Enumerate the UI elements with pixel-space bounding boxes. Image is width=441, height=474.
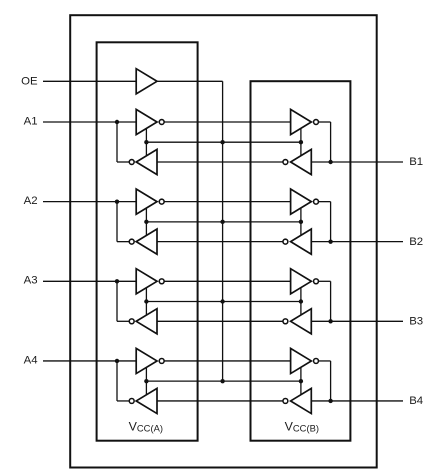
- svg-text:A2: A2: [24, 195, 38, 207]
- inverter channel 1 A-side reverse driver: [129, 149, 157, 174]
- node A2 junction: [115, 199, 119, 203]
- inverter channel 3 A-side forward driver: [136, 269, 164, 294]
- node B1 junction: [328, 160, 332, 164]
- svg-text:B1: B1: [409, 156, 423, 168]
- wire channel 2 enable link: [146, 208, 301, 236]
- wire channel 4 reverse inter-stage: [157, 400, 284, 402]
- wire A3 input: [43, 280, 136, 282]
- svg-text:B3: B3: [409, 315, 423, 327]
- wire A2 branch down to reverse output: [117, 202, 130, 242]
- wire channel 1 reverse inter-stage: [157, 161, 284, 163]
- node channel 3 enable-bus junction: [220, 299, 224, 303]
- svg-text:B2: B2: [409, 236, 423, 248]
- inverter channel 1 B-side reverse driver: [283, 149, 311, 174]
- wire A4 branch down to reverse output: [117, 361, 130, 401]
- wire A4 input: [43, 360, 136, 362]
- wire B1 output corner from forward driver: [318, 122, 331, 162]
- svg-text:B4: B4: [409, 395, 423, 407]
- pin label OE: [21, 76, 38, 88]
- wire channel 2 reverse inter-stage: [157, 241, 284, 243]
- svg-text:A3: A3: [24, 275, 38, 287]
- node B2 junction: [328, 239, 332, 243]
- wire channel 3 reverse inter-stage: [157, 320, 284, 322]
- node channel 4 enable-link B-side junction: [299, 379, 303, 383]
- inverter channel 1 A-side forward driver: [136, 109, 164, 134]
- outer device boundary box: [70, 15, 377, 467]
- svg-text:VCC(A): VCC(A): [129, 419, 163, 433]
- VCC(A) power-domain box: [97, 42, 198, 440]
- node channel 3 enable-link B-side junction: [299, 299, 303, 303]
- wire A2 input: [43, 201, 136, 203]
- wire OE input: [43, 80, 136, 82]
- inverter channel 1 B-side forward driver: [291, 109, 319, 134]
- wire channel 4 forward inter-stage: [164, 360, 291, 362]
- wire B4 pin line: [311, 400, 403, 402]
- pin label A4: [24, 354, 38, 366]
- node B3 junction: [328, 319, 332, 323]
- node channel 1 enable-link A-side junction: [144, 140, 148, 144]
- svg-text:OE: OE: [21, 76, 38, 88]
- inverter channel 3 A-side reverse driver: [129, 309, 157, 334]
- inverter channel 4 A-side forward driver: [136, 348, 164, 373]
- wire B2 pin line: [311, 241, 403, 243]
- node A3 junction: [115, 279, 119, 283]
- node B4 junction: [328, 399, 332, 403]
- pin label A1: [24, 115, 38, 127]
- buffer U1 OE enable: [136, 69, 157, 94]
- wire A1 input: [43, 121, 136, 123]
- node channel 3 enable-link A-side junction: [144, 299, 148, 303]
- wire channel 1 enable link: [146, 128, 301, 156]
- inverter channel 2 A-side reverse driver: [129, 229, 157, 254]
- pin label B1: [409, 156, 423, 168]
- wire channel 3 forward inter-stage: [164, 280, 291, 282]
- inverter channel 2 B-side reverse driver: [283, 229, 311, 254]
- wire B3 pin line: [311, 320, 403, 322]
- wire channel 2 forward inter-stage: [164, 201, 291, 203]
- wire B1 pin line: [311, 161, 403, 163]
- pin label B4: [409, 395, 423, 407]
- wire channel 3 enable link: [146, 287, 301, 315]
- svg-text:A4: A4: [24, 354, 38, 366]
- wire channel 4 enable link: [146, 367, 301, 395]
- pin label A2: [24, 195, 38, 207]
- wire B4 output corner from forward driver: [318, 361, 331, 401]
- inverter channel 2 B-side forward driver: [291, 189, 319, 214]
- node channel 1 enable-link B-side junction: [299, 140, 303, 144]
- inverter channel 3 B-side reverse driver: [283, 309, 311, 334]
- wire B3 output corner from forward driver: [318, 281, 331, 321]
- inverter channel 3 B-side forward driver: [291, 269, 319, 294]
- wire A3 branch down to reverse output: [117, 281, 130, 321]
- svg-text:A1: A1: [24, 115, 38, 127]
- inverter channel 4 B-side forward driver: [291, 348, 319, 373]
- svg-text:VCC(B): VCC(B): [285, 419, 319, 433]
- node channel 2 enable-bus junction: [220, 220, 224, 224]
- node channel 2 enable-link A-side junction: [144, 220, 148, 224]
- inverter channel 4 A-side reverse driver: [129, 388, 157, 413]
- node channel 4 enable-bus junction: [220, 379, 224, 383]
- pin label A3: [24, 275, 38, 287]
- node channel 1 enable-bus junction: [220, 140, 224, 144]
- node A1 junction: [115, 120, 119, 124]
- pin label B2: [409, 236, 423, 248]
- wire A1 branch down to reverse output: [117, 122, 130, 162]
- pin label B3: [409, 315, 423, 327]
- node channel 4 enable-link A-side junction: [144, 379, 148, 383]
- net label VCC(B): [285, 419, 319, 433]
- wire OE enable bus: right then down the middle: [157, 81, 223, 381]
- net label VCC(A): [129, 419, 163, 433]
- VCC(B) power-domain box: [251, 81, 351, 441]
- wire B2 output corner from forward driver: [318, 202, 331, 242]
- inverter channel 2 A-side forward driver: [136, 189, 164, 214]
- wire channel 1 forward inter-stage: [164, 121, 291, 123]
- inverter channel 4 B-side reverse driver: [283, 388, 311, 413]
- node channel 2 enable-link B-side junction: [299, 220, 303, 224]
- node A4 junction: [115, 359, 119, 363]
